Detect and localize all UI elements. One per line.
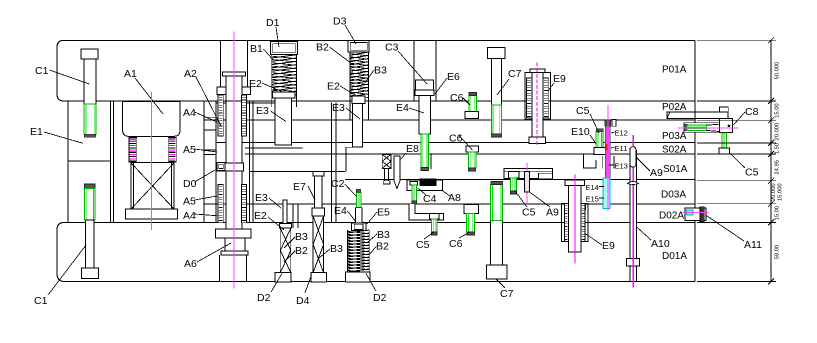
svg-text:15.000: 15.000 [778, 183, 784, 201]
A11 block [685, 208, 706, 221]
C6 upper green shaft [469, 96, 477, 112]
leader A11 [706, 215, 744, 241]
horizontal screw centerline magenta [678, 127, 738, 129]
leader A6 [197, 243, 231, 262]
A9 capsule pin on A10 [630, 147, 636, 167]
E9 lower cap [565, 180, 584, 186]
svg-text:A8: A8 [448, 192, 461, 204]
leader E2 lower [268, 217, 284, 230]
leader D2 left [271, 274, 282, 293]
E9 lower dark corner block [580, 204, 586, 209]
leader D3 [345, 25, 356, 44]
guide bushing shaft A6 [225, 238, 245, 252]
plate line P03A bottom [216, 142, 695, 144]
ball cage upper right [242, 95, 247, 136]
svg-text:B3: B3 [330, 243, 343, 255]
svg-text:A11: A11 [744, 239, 762, 251]
screw D3 head inner [350, 43, 367, 51]
D4 foot [311, 273, 327, 282]
cavity insert right edge 2 [335, 103, 337, 223]
leader C6 upper [463, 98, 470, 105]
svg-text:A4: A4 [183, 107, 196, 119]
C6 upper head [465, 112, 479, 119]
dimension oblique ticks [768, 37, 774, 284]
leader C5 mid [515, 191, 527, 207]
support block A1 [123, 102, 180, 137]
leader E3 lower [269, 198, 281, 208]
E6 head block [416, 80, 434, 90]
svg-text:C1: C1 [34, 295, 48, 307]
guide bushing flange left [217, 87, 226, 94]
svg-text:P03A: P03A [662, 131, 687, 142]
leader C5 cluster [590, 114, 599, 133]
svg-text:D01A: D01A [662, 251, 687, 262]
insert step verticals near E3 pin [292, 204, 294, 228]
D2 left foot [275, 273, 291, 282]
svg-text:15.00: 15.00 [775, 206, 781, 221]
plate line P02A bottom [204, 119, 695, 121]
mold right edge [694, 40, 696, 281]
svg-text:E2: E2 [249, 78, 262, 90]
E4 E5 collar [351, 223, 366, 230]
spring strip A5 left of A1 [129, 138, 137, 162]
center cavity column left [203, 101, 205, 223]
leader E6 [435, 78, 447, 94]
leader A5 lower [195, 196, 218, 200]
E9 upper sleeve [525, 73, 550, 120]
C3 hole left edge [413, 40, 415, 101]
svg-text:E9: E9 [553, 73, 566, 85]
screw D1 shaft [275, 98, 292, 145]
svg-text:C3: C3 [385, 42, 399, 54]
leader A1 [135, 78, 163, 114]
cavity insert right edge [331, 103, 333, 223]
svg-text:E15: E15 [586, 195, 599, 204]
leader C1 top [50, 70, 90, 84]
svg-text:D0: D0 [183, 178, 197, 190]
leader C5 low [424, 232, 434, 239]
leader A4 upper [195, 112, 218, 122]
svg-text:P02A: P02A [662, 102, 687, 113]
collar D0 small block inner [219, 164, 224, 168]
center cavity column right [215, 101, 217, 223]
leader A8 [442, 190, 451, 196]
svg-text:C2: C2 [331, 178, 345, 190]
svg-text:C6: C6 [449, 133, 463, 145]
leader C4 [418, 188, 426, 195]
svg-text:20.000: 20.000 [775, 123, 781, 141]
C4 screw green shaft [412, 185, 417, 201]
C2 green pin [356, 192, 360, 207]
dimension line vertical [770, 40, 772, 281]
leader E3 first [271, 111, 287, 122]
leader A9 right [636, 157, 650, 171]
top plate cutout around guide pillar left [219, 40, 221, 87]
centerline A1 magenta [150, 92, 152, 230]
C6 third head [464, 205, 478, 214]
leader E9 upper [548, 83, 554, 91]
svg-text:B2: B2 [295, 245, 308, 257]
A10 pin [630, 150, 636, 282]
leader E2 second [340, 86, 357, 96]
E9 upper shaft cap [530, 69, 545, 73]
leader E8 [400, 153, 406, 160]
svg-text:E1: E1 [30, 126, 43, 138]
svg-text:D3: D3 [333, 16, 347, 28]
svg-text:C1: C1 [35, 65, 49, 77]
svg-text:S01A: S01A [663, 164, 688, 175]
leader E15 [599, 197, 604, 199]
svg-text:P01A: P01A [662, 65, 687, 76]
E9 lower cage right [581, 204, 585, 242]
pocket wall below A6 right [245, 255, 247, 282]
bracket right notch [538, 173, 552, 179]
svg-text:B3: B3 [374, 65, 387, 77]
A10 collar bottom [627, 259, 640, 267]
guide pillar shaft upper [226, 76, 242, 102]
C8 latch bar [667, 112, 728, 118]
leader E14 [599, 186, 604, 188]
E9 upper foot [529, 137, 546, 144]
bracket bar inner line [504, 171, 552, 173]
E9 upper cage left [526, 78, 532, 118]
E13 seat wall right [613, 156, 615, 169]
leader E5 [367, 212, 377, 224]
svg-text:E5: E5 [377, 207, 390, 219]
leader A9 mid [530, 192, 551, 207]
leader A10 [637, 227, 651, 240]
leader A5 upper [195, 149, 218, 152]
E9 upper shaft [532, 73, 543, 137]
svg-text:24.95: 24.95 [775, 160, 781, 175]
screw D1 head inner [273, 44, 296, 53]
plate line insert step left [249, 171, 345, 173]
C6 mid green shaft [469, 152, 476, 168]
guide bushing flange right [242, 87, 251, 94]
E9 lower centerline magenta [574, 174, 576, 263]
leader C7 lower [496, 279, 505, 288]
screw C1 bottom shaft [85, 220, 94, 268]
svg-text:A9: A9 [650, 167, 663, 179]
svg-text:B2: B2 [316, 42, 329, 54]
pocket wall below A6 left [219, 255, 221, 282]
svg-text:C8: C8 [745, 106, 759, 118]
plate line S02A bottom [245, 153, 695, 155]
collar D0 small block [217, 162, 225, 170]
leader C8 [733, 112, 745, 125]
leader E2 top left [262, 83, 283, 92]
D2 left X tube [280, 228, 291, 273]
svg-text:E8: E8 [406, 143, 419, 155]
collar D0 bar [216, 163, 243, 171]
leader E12 [611, 132, 615, 133]
A11 cyan part [687, 210, 693, 215]
channel step lines [204, 116, 216, 118]
leader C6 mid [459, 135, 472, 149]
E8 X pin foot [383, 181, 390, 184]
svg-text:D2: D2 [257, 292, 271, 304]
leader B3 lower left [284, 237, 295, 248]
C5 low green shaft [431, 219, 437, 232]
svg-text:E3: E3 [256, 105, 269, 117]
leader E3 second [346, 108, 360, 119]
svg-text:E2: E2 [254, 210, 267, 222]
bottom clamp plate D01A outline [57, 223, 695, 282]
screw C1 top shaft [84, 59, 96, 104]
leader D0 [195, 170, 216, 182]
A11 centerline magenta [682, 212, 708, 214]
D2 right foot [346, 272, 370, 282]
C5 right green shaft [722, 133, 726, 148]
E7 pin cap [313, 172, 324, 176]
svg-text:A5: A5 [183, 196, 196, 208]
C5 mid head [509, 172, 519, 178]
E3 pin lower [283, 200, 287, 223]
E9 lower cage left [564, 204, 568, 242]
guide bushing flange A6 [216, 229, 251, 238]
small block right of E11 pin [612, 120, 616, 127]
E9 upper cage right [543, 78, 549, 118]
horizontal screw taper to block [706, 124, 719, 125]
E14 E15 cyan pin [603, 178, 610, 209]
svg-text:E4: E4 [396, 102, 409, 114]
E13 seat wall left [601, 156, 603, 169]
svg-text:E12: E12 [615, 129, 628, 138]
leader C5 right [730, 153, 745, 168]
leader E4 lower [348, 211, 357, 222]
ejector pin E11 body magenta [605, 126, 610, 181]
D4 X tube [313, 216, 324, 273]
leader B3 lower mid [319, 249, 330, 258]
E7 collar [312, 208, 325, 216]
screw C1 bottom dark cap [85, 184, 96, 189]
svg-text:S02A: S02A [662, 145, 687, 156]
svg-text:C5: C5 [416, 239, 430, 251]
guide bushing footer A6 [221, 251, 248, 255]
A9 centerline magenta [526, 163, 528, 203]
leader D1 [276, 27, 279, 47]
C2 pin shaft lower [355, 208, 362, 223]
svg-text:C5: C5 [576, 105, 590, 117]
dimension extension lines [697, 40, 776, 281]
leader E9 lower [585, 234, 602, 245]
C8 latch tongue above bar [719, 107, 728, 112]
X-braced spacer box [131, 163, 174, 210]
leader B3 lower right [368, 234, 377, 242]
E6 flange [415, 90, 434, 96]
C7 upper head [487, 48, 505, 59]
screw D1 head [270, 42, 297, 55]
screw C1 bottom head [81, 268, 98, 279]
E4 pin hole right wall [430, 154, 432, 169]
B1 spring seat collar [273, 92, 295, 98]
svg-text:E4: E4 [334, 205, 347, 217]
E4 pin shaft [419, 96, 431, 135]
C4 screw head [410, 182, 418, 186]
B2 spring hole walls [349, 96, 351, 120]
C5 low screw head [430, 214, 440, 219]
C7 upper green thread [491, 105, 501, 134]
C5 cluster green shaft [596, 132, 603, 148]
bracket bar [504, 168, 552, 178]
svg-text:A6: A6 [184, 258, 197, 270]
leader E13 [609, 164, 615, 166]
spacer box inner wall right [170, 163, 172, 210]
top plate cutout around guide pillar right [247, 40, 249, 87]
pocket wall right of guide pillar [249, 101, 251, 223]
svg-text:C5: C5 [522, 207, 536, 219]
ball cage upper left [218, 95, 223, 136]
E9 lower outer sleeve [562, 204, 589, 242]
insert step under D3 [346, 146, 352, 148]
svg-text:D2: D2 [373, 292, 387, 304]
C5 right head [719, 148, 730, 154]
spacer box inner wall left [133, 163, 135, 210]
svg-text:15.00: 15.00 [775, 103, 781, 118]
B1 spring hole walls [271, 92, 273, 107]
svg-text:A9: A9 [546, 207, 559, 219]
C8 block dot [728, 125, 731, 128]
C8 block [719, 118, 732, 132]
screw C1 bottom green thread [85, 189, 96, 221]
svg-text:D02A: D02A [659, 211, 684, 222]
centerline guide pillar magenta [233, 31, 235, 288]
plate line S01A bottom right [345, 178, 695, 180]
svg-text:B2: B2 [376, 241, 389, 253]
A8 block outline [407, 180, 442, 191]
svg-text:E13: E13 [615, 162, 628, 171]
svg-text:E6: E6 [447, 71, 460, 83]
leader C3 [398, 51, 427, 84]
top clamp plate P01A outline [57, 40, 695, 101]
E4 pin green segment [421, 134, 429, 168]
left rail seam [68, 160, 111, 162]
svg-text:C6: C6 [449, 238, 463, 250]
screw C1 top green thread [84, 104, 96, 134]
leader B2 lower right [369, 247, 376, 256]
spring B1 coil [272, 55, 297, 95]
E11 red segment [606, 144, 608, 150]
C5 mid green shaft [511, 178, 517, 191]
pocket wall right of rail [112, 101, 114, 223]
leader C2 [345, 184, 357, 197]
svg-text:C6: C6 [450, 92, 464, 104]
C7 lower head [487, 265, 507, 279]
leader B3 top [365, 70, 375, 83]
E9 lower shaft [568, 186, 581, 252]
svg-text:E11: E11 [615, 144, 628, 153]
leader D4 [305, 275, 312, 293]
svg-text:C7: C7 [508, 68, 522, 80]
E8 taper pin [394, 156, 400, 189]
A9 pin [525, 172, 530, 192]
svg-text:E9: E9 [602, 240, 615, 252]
svg-text:A5: A5 [183, 144, 196, 156]
leader E11 [611, 147, 615, 150]
spring B2 coil [350, 52, 369, 97]
E9 upper centerline magenta dashed [536, 63, 538, 147]
C7 upper shaft [491, 59, 501, 106]
screw D3 head [348, 41, 369, 52]
ball cage lower right [242, 185, 247, 223]
insert step line [245, 147, 302, 149]
molded part black A8 [420, 179, 437, 186]
screw D3 shaft lower [352, 103, 362, 147]
cluster centerline magenta [607, 105, 609, 210]
horizontal screw dark cap [684, 124, 687, 130]
svg-text:1.50: 1.50 [775, 143, 781, 154]
C3 hole right edge [435, 40, 437, 101]
guide pillar shaft full [226, 101, 242, 229]
spacer base block [126, 209, 178, 219]
C7 lower green thread [491, 185, 503, 221]
svg-text:50.000: 50.000 [775, 62, 781, 80]
svg-text:C4: C4 [423, 193, 437, 205]
E4 E5 collar inner [354, 224, 363, 229]
leader C1 bottom [48, 245, 86, 295]
leader E10 [590, 135, 596, 144]
svg-text:B3: B3 [295, 231, 308, 243]
svg-text:A10: A10 [651, 238, 670, 250]
svg-text:A2: A2 [184, 68, 197, 80]
svg-text:C5: C5 [745, 167, 759, 179]
svg-text:B3: B3 [377, 229, 390, 241]
A10 centerline magenta [632, 135, 634, 288]
leader A2 [196, 77, 221, 126]
spring strip A5 right of A1 [168, 138, 176, 162]
C5 cluster head [594, 147, 606, 154]
ejector pin E11 dark cap [605, 120, 611, 126]
screw C1 top head [81, 49, 98, 59]
E8 X pin [382, 154, 391, 168]
leader E7 [308, 186, 315, 200]
C6 mid head [466, 146, 479, 152]
left support rail [68, 101, 111, 223]
leader B2 top [330, 47, 354, 65]
leader C7 upper [497, 79, 509, 95]
svg-text:E3: E3 [332, 102, 345, 114]
C6 third green shaft [467, 214, 475, 233]
A10 break marker [628, 182, 639, 185]
svg-text:58.00: 58.00 [775, 245, 781, 260]
svg-text:E10: E10 [571, 126, 590, 138]
leader C6 third [459, 232, 470, 238]
svg-text:D03A: D03A [661, 190, 686, 201]
svg-text:C7: C7 [500, 288, 514, 300]
svg-text:D4: D4 [296, 295, 310, 307]
plate line D03A bottom [204, 203, 695, 205]
svg-text:E2: E2 [327, 81, 340, 93]
horizontal screw slot [684, 123, 719, 133]
insert top line [216, 102, 275, 104]
cluster step bracket [584, 154, 597, 168]
svg-text:A4: A4 [183, 210, 196, 222]
leader E4 upper [409, 108, 424, 113]
horizontal screw green shaft [687, 125, 706, 130]
svg-text:20.000: 20.000 [771, 183, 777, 201]
L step bracket [409, 204, 443, 220]
leader E1 [44, 132, 83, 143]
E8 X pin tail [384, 168, 386, 180]
C8 latch bar left bevel [667, 112, 670, 118]
E7 pin shaft [315, 176, 323, 208]
screw D3 shaft [352, 96, 365, 104]
A11 hatched pin [700, 207, 704, 222]
leader A4 lower [195, 214, 221, 216]
spring B3 coil lower [348, 230, 370, 273]
svg-text:B1: B1 [250, 43, 263, 55]
C7 lower shaft [491, 220, 503, 265]
